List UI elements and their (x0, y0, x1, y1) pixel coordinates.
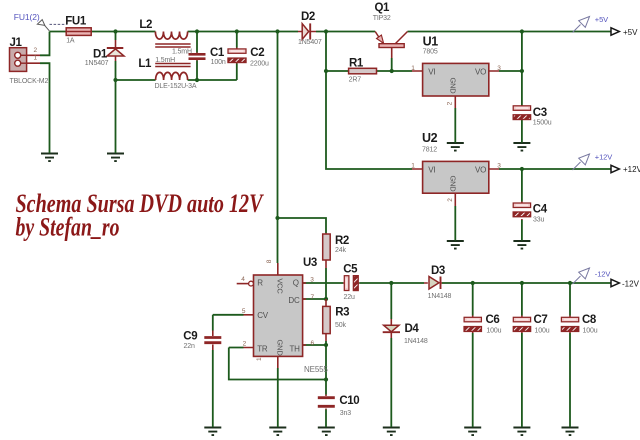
svg-text:22u: 22u (344, 294, 355, 301)
svg-text:100u: 100u (583, 327, 598, 334)
svg-text:VI: VI (428, 166, 435, 175)
svg-text:1: 1 (34, 55, 38, 62)
svg-text:1.5mH: 1.5mH (172, 49, 192, 56)
svg-text:4: 4 (241, 276, 245, 283)
svg-text:C8: C8 (582, 314, 597, 326)
svg-text:6: 6 (311, 340, 315, 347)
svg-text:7805: 7805 (423, 49, 438, 56)
svg-text:3: 3 (497, 163, 501, 170)
svg-text:VCC: VCC (276, 278, 285, 294)
svg-text:2: 2 (447, 198, 454, 202)
svg-text:1.5mH: 1.5mH (155, 57, 175, 64)
svg-text:GND: GND (276, 340, 285, 357)
svg-text:FU1(2): FU1(2) (14, 12, 40, 22)
svg-text:7812: 7812 (422, 146, 437, 153)
svg-text:1: 1 (411, 65, 415, 72)
svg-text:C5: C5 (343, 264, 358, 276)
svg-text:24k: 24k (335, 247, 346, 254)
svg-text:VI: VI (428, 68, 435, 77)
svg-text:TIP32: TIP32 (373, 15, 391, 22)
svg-text:Q: Q (293, 279, 299, 288)
svg-text:2: 2 (34, 47, 38, 54)
svg-text:C4: C4 (533, 204, 548, 216)
svg-text:3: 3 (310, 276, 314, 283)
svg-text:C1: C1 (210, 47, 225, 59)
svg-text:U1: U1 (423, 35, 439, 49)
svg-text:L1: L1 (138, 58, 152, 70)
svg-text:-12V: -12V (595, 270, 611, 279)
svg-text:R3: R3 (335, 307, 349, 319)
svg-text:5: 5 (242, 308, 246, 315)
svg-text:1500u: 1500u (533, 119, 552, 126)
svg-text:J1: J1 (10, 37, 23, 49)
svg-text:C10: C10 (339, 395, 359, 407)
svg-text:FU1: FU1 (65, 15, 87, 27)
svg-text:1: 1 (256, 357, 263, 361)
svg-text:100u: 100u (535, 327, 550, 334)
svg-text:1A: 1A (66, 37, 75, 44)
svg-text:8: 8 (266, 259, 273, 263)
svg-text:VO: VO (475, 68, 486, 77)
svg-text:TH: TH (290, 344, 301, 353)
svg-text:2: 2 (243, 340, 247, 347)
svg-text:VO: VO (475, 166, 486, 175)
svg-text:L2: L2 (139, 19, 152, 31)
svg-text:1N5407: 1N5407 (298, 39, 322, 46)
svg-text:3: 3 (497, 65, 501, 72)
svg-text:NE555: NE555 (304, 365, 328, 374)
svg-text:100n: 100n (211, 59, 226, 66)
svg-text:CV: CV (257, 311, 269, 320)
svg-text:+5V: +5V (623, 28, 638, 37)
svg-text:2200u: 2200u (250, 61, 269, 68)
svg-text:1: 1 (411, 163, 415, 170)
svg-text:DC: DC (288, 296, 300, 305)
svg-text:U2: U2 (422, 131, 438, 145)
svg-text:+12V: +12V (595, 153, 612, 162)
svg-text:GND: GND (449, 175, 458, 192)
svg-text:+5V: +5V (595, 15, 608, 24)
svg-text:R1: R1 (349, 58, 364, 70)
svg-text:R2: R2 (335, 235, 349, 247)
svg-text:D3: D3 (431, 265, 445, 277)
svg-text:TR: TR (257, 344, 268, 353)
svg-text:100u: 100u (486, 327, 501, 334)
svg-text:R: R (257, 279, 263, 288)
svg-text:C9: C9 (183, 331, 197, 343)
svg-text:22n: 22n (184, 343, 195, 350)
svg-text:+12V: +12V (623, 165, 640, 174)
svg-text:D2: D2 (301, 11, 315, 23)
svg-text:Q1: Q1 (375, 2, 391, 14)
svg-text:7: 7 (311, 294, 315, 301)
svg-text:C6: C6 (486, 314, 500, 326)
svg-text:GND: GND (449, 77, 458, 94)
svg-text:2: 2 (447, 101, 454, 105)
svg-text:U3: U3 (303, 257, 317, 269)
svg-text:1N4148: 1N4148 (404, 338, 428, 345)
svg-text:50k: 50k (335, 322, 346, 329)
svg-text:3n3: 3n3 (340, 410, 351, 417)
svg-text:33u: 33u (533, 217, 544, 224)
svg-text:C7: C7 (534, 314, 548, 326)
svg-text:-12V: -12V (622, 280, 640, 289)
svg-text:D4: D4 (405, 323, 420, 335)
svg-text:DLE-152U-3A: DLE-152U-3A (155, 83, 197, 90)
svg-text:1N5407: 1N5407 (85, 60, 109, 67)
svg-text:by Stefan_ro: by Stefan_ro (16, 213, 120, 242)
svg-text:TBLOCK-M2: TBLOCK-M2 (10, 78, 49, 85)
svg-text:1N4148: 1N4148 (428, 293, 452, 300)
svg-text:2R7: 2R7 (349, 77, 362, 84)
svg-text:C3: C3 (533, 107, 547, 119)
svg-text:C2: C2 (250, 47, 264, 59)
